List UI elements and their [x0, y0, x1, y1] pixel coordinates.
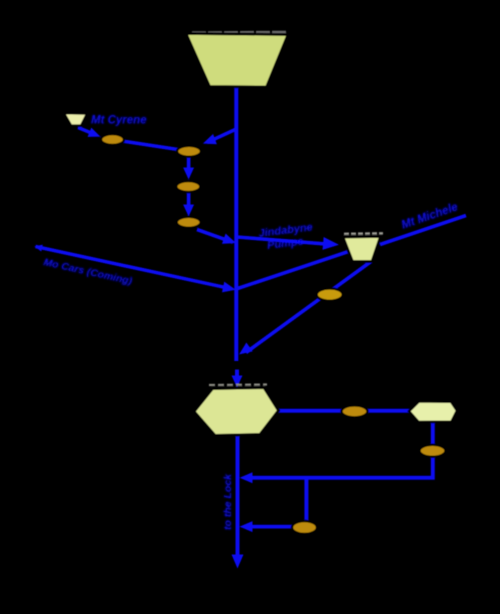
arrow at junction A	[222, 282, 237, 295]
reservoir R1	[186, 34, 288, 88]
arrow into reservoir R3	[323, 237, 340, 251]
reservoir hexagon H2	[409, 401, 457, 422]
arrow PS2 to PS3	[187, 157, 191, 173]
wire small reservoir R2 to PS1	[78, 128, 95, 135]
wire reservoir R3 to Mt Michele	[380, 216, 466, 245]
wire reservoir R3 through PS5 to junction B	[246, 262, 371, 353]
wire diversion line (Mo Cars)	[36, 247, 232, 289]
wire hexagon H1 to hexagon H2	[279, 409, 409, 413]
arrow at junction E	[222, 233, 238, 248]
svg-text:Mt Cyrene: Mt Cyrene	[91, 115, 147, 127]
wire hexagon H2 down through PS7	[245, 423, 433, 478]
wire branch to power station PS2	[207, 129, 236, 143]
arrow PS3 to PS4	[187, 193, 191, 210]
wire junction E to reservoir R3	[237, 237, 330, 244]
reservoir R3	[343, 237, 381, 262]
arrow short into hexagon H1 top	[235, 370, 239, 382]
wire main vertical below hexagon H1	[236, 435, 240, 556]
wire PS1 to PS2	[122, 141, 178, 150]
arrow bottom outflow	[232, 555, 244, 569]
wire junction A to reservoir R3	[238, 252, 349, 289]
power station PS7	[420, 445, 446, 457]
reservoir R1 hatch	[192, 31, 288, 34]
reservoir R2 (small)	[64, 113, 87, 125]
arrow into PS1	[88, 128, 103, 142]
power station PS4	[177, 217, 201, 228]
power station PS3	[176, 181, 200, 192]
power station PS2	[177, 146, 201, 157]
power station PS1	[101, 134, 124, 145]
arrow into PS2	[201, 134, 217, 149]
label Jindabyne Pumps	[258, 221, 315, 252]
wire PS8 to junction D	[245, 525, 293, 529]
reservoir R3 hatch	[344, 232, 383, 235]
reservoir hexagon H1 hatch	[209, 383, 267, 386]
wire main vertical line	[234, 85, 238, 361]
power station PS6	[342, 405, 368, 417]
arrow at junction D	[240, 521, 253, 532]
arrow small at diversion start	[33, 243, 42, 252]
power station PS8	[292, 521, 317, 534]
arrow at junction C	[240, 472, 253, 483]
wire PS4 to main line	[197, 230, 233, 243]
svg-text:to the Lock: to the Lock	[222, 473, 234, 530]
wire drop to PS8	[304, 478, 308, 524]
power station PS5	[317, 288, 343, 300]
reservoir hexagon H1	[194, 388, 279, 436]
arrow at junction B	[236, 342, 253, 359]
